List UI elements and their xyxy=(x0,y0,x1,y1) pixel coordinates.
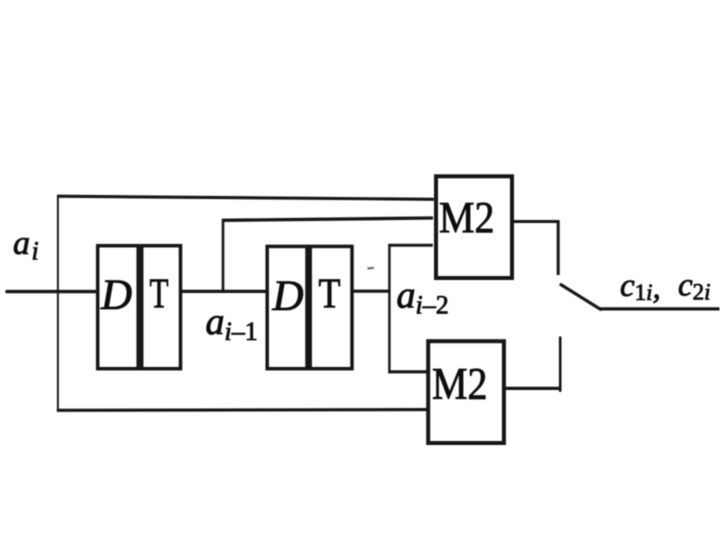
svg-text:ai: ai xyxy=(13,225,39,266)
wire: branch down from input node xyxy=(57,291,59,412)
svg-text:M2: M2 xyxy=(439,193,495,242)
svg-text:c1i,: c1i, xyxy=(620,268,661,306)
svg-text:ai–2: ai–2 xyxy=(397,274,449,319)
svg-text:D: D xyxy=(272,273,304,320)
wire: a_i-2 vertical bus xyxy=(388,244,390,373)
wire: a_i-2 branch to adder U1 input xyxy=(388,244,433,247)
switch: commutator arm xyxy=(561,285,601,310)
svg-text:D: D xyxy=(100,272,132,319)
svg-text:T: T xyxy=(319,272,341,318)
XOR adder U2 (bottom M2) box xyxy=(428,341,504,443)
wire: switch lower contact vertical xyxy=(559,337,562,392)
wire: T2 output to node a_i-2 xyxy=(352,290,391,293)
wire: branch up from input node xyxy=(57,195,59,293)
svg-text:ai–1: ai–1 xyxy=(206,301,258,346)
register stage 2: T latch box xyxy=(310,246,352,368)
wire: T1 output to D2 input (node a_i-1) xyxy=(182,290,267,293)
svg-text:T: T xyxy=(150,272,169,318)
register stage 2: D latch box xyxy=(267,246,307,368)
wire: U2 output horizontal xyxy=(504,387,562,390)
XOR adder U1 (top M2) box xyxy=(436,176,512,278)
wire: bottom feedback line to adder U2 xyxy=(57,408,428,412)
wire: a_i-1 tap vertical xyxy=(222,219,225,292)
svg-text:c2i: c2i xyxy=(678,268,711,305)
svg-text:M2: M2 xyxy=(432,359,488,409)
artifact: small dash above a_i-2 wire xyxy=(368,267,375,270)
wire: output line xyxy=(600,307,720,310)
wire: a_i-2 branch to adder U2 input xyxy=(388,370,427,373)
register stage 1: D latch box xyxy=(98,246,139,369)
wire: input a_i line xyxy=(7,290,96,293)
wire: top feedback line to adder U1 xyxy=(57,196,434,199)
label c_1i, c_2i outputs xyxy=(620,268,711,307)
wire: U1 output to switch upper contact xyxy=(513,222,558,276)
wire: a_i-1 tap horizontal to adder U1 xyxy=(222,218,433,220)
register stage 1: T latch box xyxy=(142,246,181,369)
